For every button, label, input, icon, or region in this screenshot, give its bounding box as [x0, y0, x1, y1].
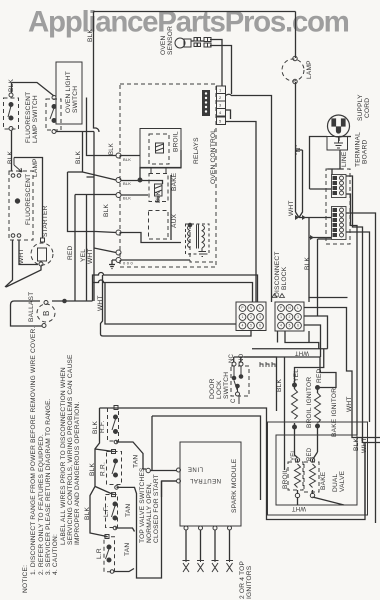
svg-text:LINE: LINE [341, 151, 348, 167]
svg-text:L: L [259, 306, 261, 310]
svg-text:BROIL: BROIL [282, 468, 289, 489]
svg-text:BLK: BLK [87, 29, 94, 42]
svg-text:C: C [231, 398, 237, 403]
svg-text:CORD: CORD [364, 98, 371, 118]
svg-text:TAN: TAN [133, 455, 140, 468]
svg-text:WHT: WHT [18, 248, 25, 264]
svg-text:3. SERVICER PLEASE RETURN DIAG: 3. SERVICER PLEASE RETURN DIAGRAM TO RAN… [45, 398, 52, 575]
svg-text:2: 2 [289, 315, 291, 319]
svg-text:NORMALLY OPEN,: NORMALLY OPEN, [146, 482, 153, 543]
svg-text:AppliancePartsPros.com: AppliancePartsPros.com [28, 6, 349, 39]
svg-text:WHT: WHT [97, 295, 104, 311]
svg-text:BROIL IGNITOR: BROIL IGNITOR [306, 377, 313, 428]
svg-text:LABEL ALL WIRES PRIOR TO DISCO: LABEL ALL WIRES PRIOR TO DISCONNECTION W… [60, 367, 67, 545]
svg-text:BLK: BLK [103, 204, 110, 217]
svg-text:4: 4 [242, 324, 244, 328]
svg-text:P: P [280, 306, 282, 310]
svg-text:B: B [42, 310, 51, 316]
svg-text:1: 1 [280, 315, 282, 319]
svg-text:BAKE: BAKE [320, 471, 327, 490]
svg-text:WHT: WHT [288, 200, 295, 216]
svg-text:5: 5 [289, 324, 291, 328]
svg-text:BLK: BLK [109, 143, 115, 155]
svg-text:5: 5 [250, 324, 252, 328]
svg-text:YEL: YEL [291, 449, 297, 461]
svg-text:SWITCH: SWITCH [72, 86, 79, 113]
svg-text:SPARK MODULE: SPARK MODULE [231, 458, 238, 513]
svg-text:STARTER: STARTER [42, 205, 49, 237]
svg-text:P: P [241, 306, 243, 310]
svg-text:BLK: BLK [123, 157, 131, 162]
svg-text:3: 3 [297, 315, 299, 319]
svg-text:NEUTRAL: NEUTRAL [189, 477, 221, 483]
svg-text:IMPROPER AND DANGEROUS OPERATI: IMPROPER AND DANGEROUS OPERATION. [74, 402, 81, 546]
svg-text:BAKE: BAKE [171, 172, 178, 191]
svg-text:BLK: BLK [7, 151, 14, 164]
svg-text:BALLAST: BALLAST [28, 292, 35, 322]
svg-text:LAMP: LAMP [306, 60, 313, 79]
svg-text:BLK: BLK [123, 181, 131, 186]
svg-text:OVEN CONTROL: OVEN CONTROL [210, 129, 217, 184]
svg-text:BLK: BLK [353, 438, 360, 451]
svg-text:WHT: WHT [87, 248, 94, 264]
svg-text:VALVE: VALVE [339, 470, 346, 492]
svg-text:OVEN LIGHT: OVEN LIGHT [65, 71, 72, 113]
svg-text:BLK: BLK [156, 191, 162, 203]
svg-text:OVEN: OVEN [160, 35, 167, 55]
svg-text:BLK: BLK [84, 507, 91, 520]
svg-text:1. DISCONNECT RANGE FROM POWER: 1. DISCONNECT RANGE FROM POWER BEFORE RE… [30, 326, 37, 575]
svg-text:WHT: WHT [361, 437, 368, 453]
svg-text:BLK: BLK [8, 79, 15, 92]
svg-text:BLK: BLK [123, 196, 131, 201]
svg-text:BLK: BLK [89, 463, 96, 476]
svg-text:FLUORESCENT: FLUORESCENT [25, 174, 32, 225]
svg-text:SUPPLY: SUPPLY [357, 94, 364, 121]
svg-text:IGNITORS: IGNITORS [246, 565, 253, 599]
svg-text:SWITCH: SWITCH [223, 372, 230, 399]
svg-text:"N": "N" [295, 144, 302, 155]
svg-text:NO: NO [239, 353, 245, 363]
svg-text:6: 6 [297, 324, 299, 328]
svg-text:WHT: WHT [346, 396, 353, 412]
svg-text:R.F.: R.F. [99, 420, 106, 433]
svg-text:WHT: WHT [292, 505, 306, 511]
svg-text:LINE: LINE [187, 466, 203, 472]
svg-text:RED: RED [316, 368, 323, 383]
svg-text:YEL: YEL [80, 249, 87, 262]
svg-text:RED: RED [307, 447, 313, 461]
svg-text:NC: NC [229, 353, 235, 363]
svg-text:BLK: BLK [304, 257, 311, 270]
svg-text:BROIL: BROIL [173, 131, 180, 152]
svg-text:RED: RED [67, 245, 74, 260]
svg-text:FLUORESCENT: FLUORESCENT [25, 92, 32, 143]
svg-text:BLK: BLK [92, 421, 99, 434]
svg-text:WHT: WHT [295, 350, 309, 356]
svg-text:DOOR: DOOR [209, 378, 216, 399]
svg-text:2 OR 4 TOP: 2 OR 4 TOP [239, 561, 246, 599]
svg-text:BAKE IGNITOR: BAKE IGNITOR [331, 388, 338, 437]
svg-text:RELAYS: RELAYS [193, 137, 200, 164]
svg-text:TERMINAL: TERMINAL [355, 132, 362, 167]
svg-text:SENSOR: SENSOR [167, 26, 174, 55]
svg-text:LOCK: LOCK [216, 380, 223, 399]
svg-text:LAMP: LAMP [32, 158, 39, 177]
svg-text:BLK: BLK [276, 379, 283, 392]
svg-text:6: 6 [259, 324, 261, 328]
svg-text:1: 1 [242, 315, 244, 319]
svg-text:R.R.: R.R. [100, 462, 107, 476]
svg-text:YEL: YEL [293, 369, 300, 382]
svg-text:DUAL: DUAL [332, 473, 339, 492]
svg-text:TOP VALVE SWITCHES: TOP VALVE SWITCHES [139, 467, 146, 543]
svg-text:4: 4 [280, 324, 282, 328]
svg-text:4. CAUTION:: 4. CAUTION: [52, 534, 59, 575]
svg-text:BLK: BLK [75, 151, 82, 164]
svg-text:L.F.: L.F. [103, 506, 110, 517]
svg-text:TAN: TAN [124, 543, 131, 556]
svg-text:2. REFER ONLY TO FEATURES EQUI: 2. REFER ONLY TO FEATURES EQUIPPED. [38, 434, 45, 575]
svg-text:BLOCK: BLOCK [281, 266, 288, 290]
svg-text:NOTICE:: NOTICE: [22, 565, 29, 593]
svg-text:L.R: L.R [96, 548, 103, 559]
svg-text:LAMP SWITCH: LAMP SWITCH [32, 95, 39, 143]
svg-text:BOARD: BOARD [362, 140, 369, 164]
svg-text:3: 3 [259, 315, 261, 319]
svg-text:SERVICING CONTROLS, WIRING PRO: SERVICING CONTROLS, WIRING PROBLEMS CAN … [67, 354, 74, 545]
svg-text:AUX: AUX [171, 213, 178, 228]
svg-text:TAN: TAN [125, 504, 132, 517]
svg-text:DISCONNECT: DISCONNECT [274, 251, 281, 297]
svg-text:2: 2 [250, 315, 252, 319]
svg-text:0 0 0: 0 0 0 [123, 261, 133, 266]
svg-text:CLOSED FOR START: CLOSED FOR START [153, 474, 160, 543]
svg-text:L: L [297, 306, 299, 310]
